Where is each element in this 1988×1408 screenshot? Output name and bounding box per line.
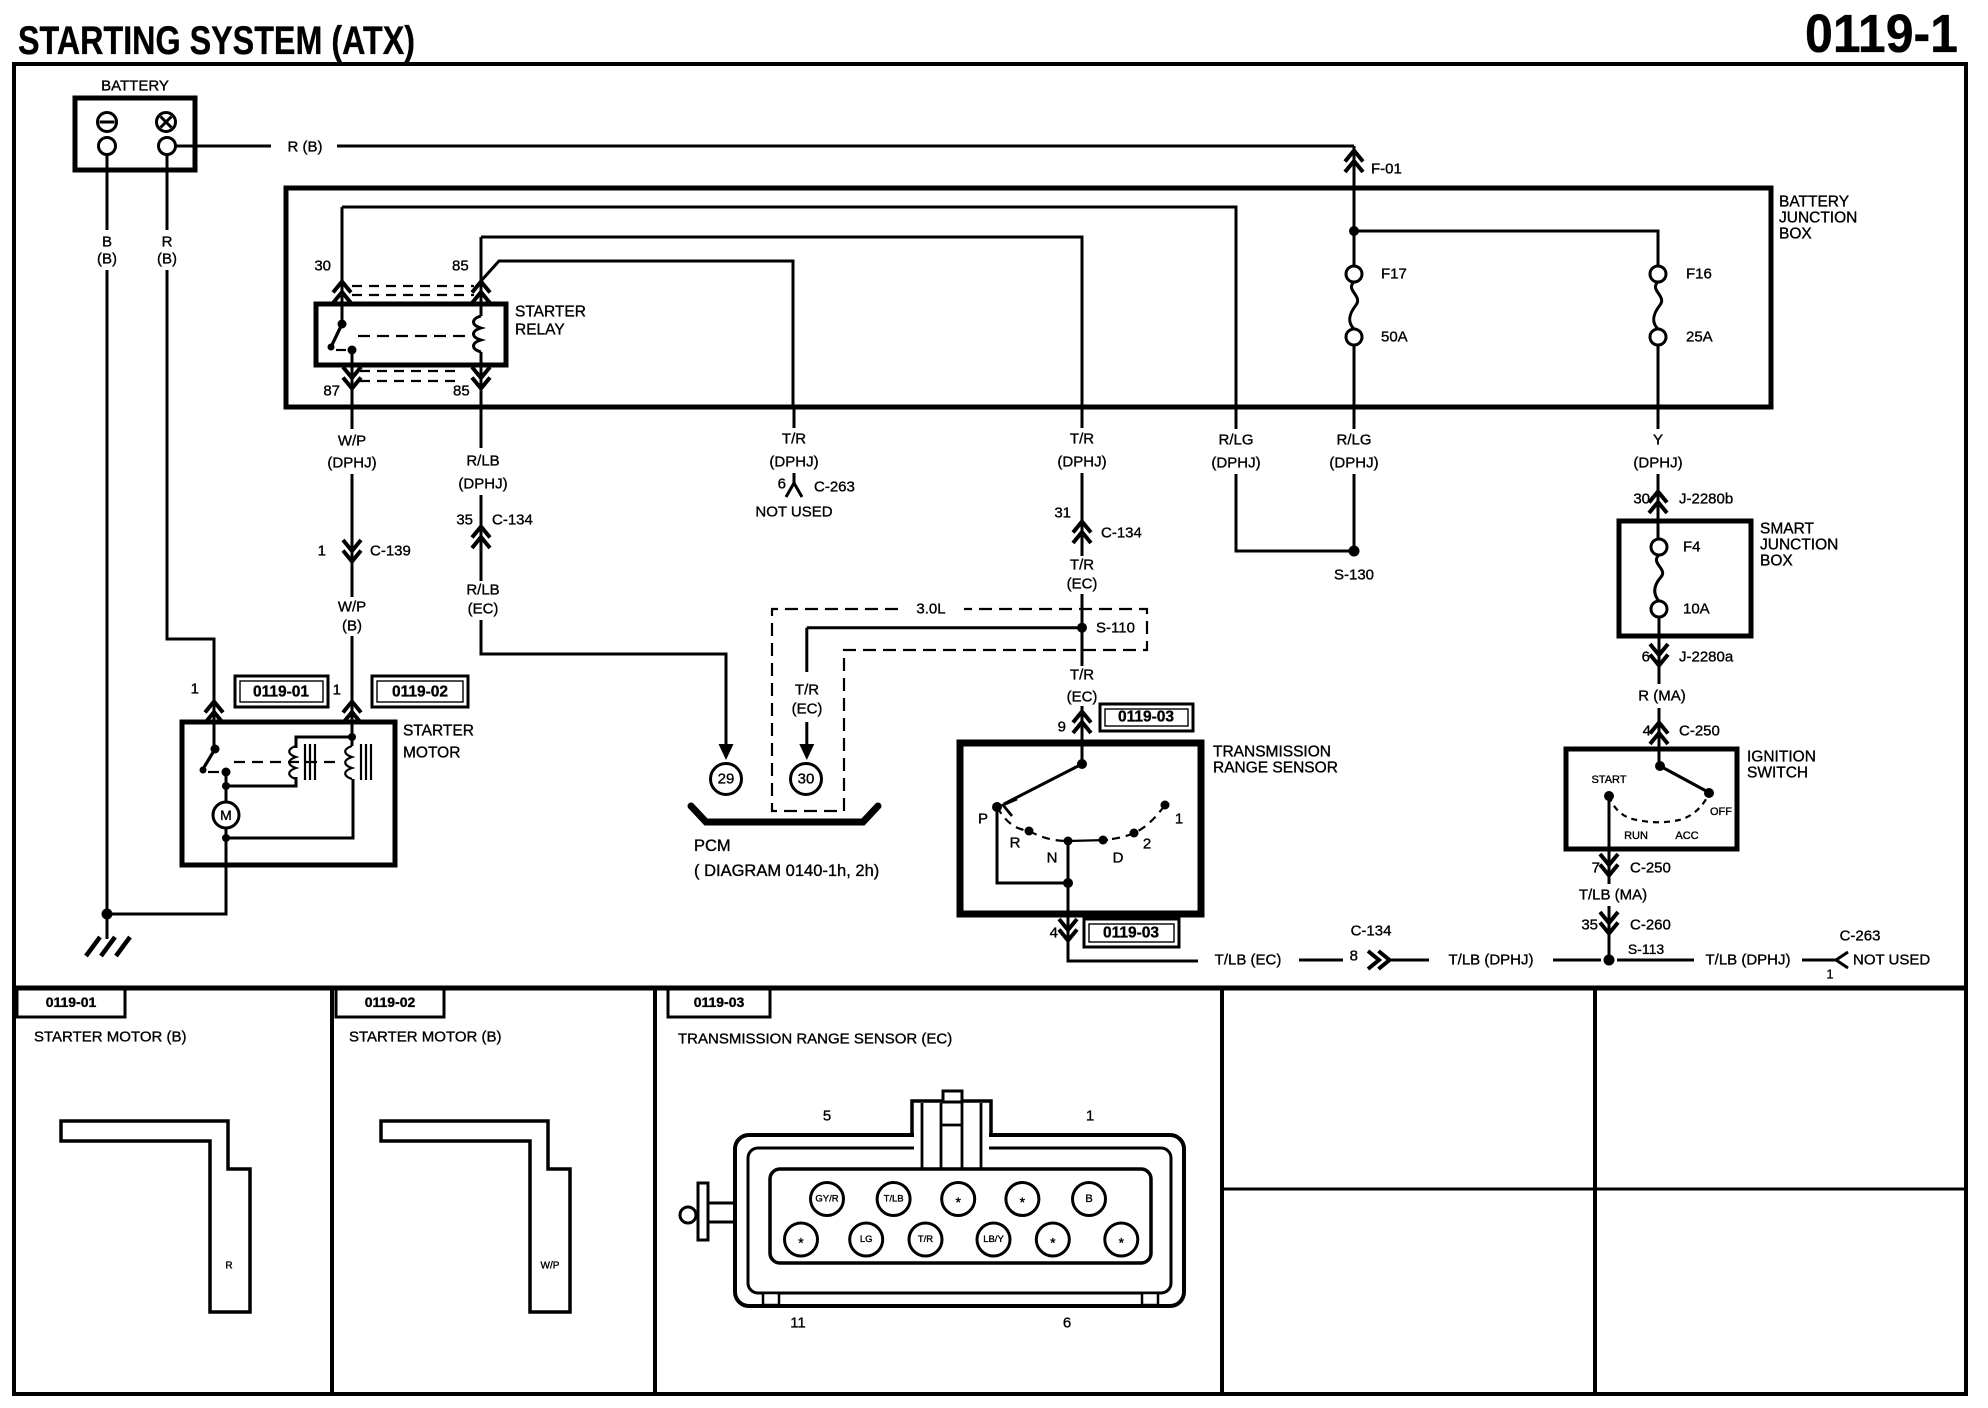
svg-text:30: 30 <box>798 771 815 788</box>
svg-text:6: 6 <box>1063 1315 1071 1332</box>
svg-text:F17: F17 <box>1381 266 1407 283</box>
svg-text:1: 1 <box>1175 811 1183 828</box>
svg-text:1: 1 <box>333 682 341 699</box>
svg-text:*: * <box>1020 1194 1026 1210</box>
svg-text:S-110: S-110 <box>1096 620 1135 637</box>
svg-text:T/R: T/R <box>918 1234 933 1245</box>
svg-text:R/LB: R/LB <box>466 453 499 470</box>
svg-text:(B): (B) <box>157 251 177 268</box>
svg-text:R: R <box>1010 835 1021 852</box>
svg-text:(B): (B) <box>97 251 117 268</box>
svg-text:0119-1: 0119-1 <box>1805 4 1958 64</box>
svg-text:T/LB (DPHJ): T/LB (DPHJ) <box>1705 952 1790 969</box>
svg-text:STARTER: STARTER <box>515 304 586 321</box>
svg-text:9: 9 <box>1058 719 1066 736</box>
svg-text:(DPHJ): (DPHJ) <box>1057 454 1106 471</box>
svg-text:(EC): (EC) <box>468 601 499 618</box>
svg-text:START: START <box>1591 774 1626 786</box>
svg-text:8: 8 <box>1350 948 1358 965</box>
svg-text:6: 6 <box>778 476 786 493</box>
svg-text:OFF: OFF <box>1710 806 1732 818</box>
svg-text:W/P: W/P <box>541 1261 560 1272</box>
svg-text:S-130: S-130 <box>1334 567 1374 584</box>
svg-text:(DPHJ): (DPHJ) <box>458 476 507 493</box>
svg-text:C-260: C-260 <box>1630 917 1671 934</box>
svg-text:0119-03: 0119-03 <box>1103 925 1159 942</box>
svg-text:F4: F4 <box>1683 539 1701 556</box>
svg-text:B: B <box>102 234 112 251</box>
svg-text:RANGE SENSOR: RANGE SENSOR <box>1213 760 1338 777</box>
svg-text:1: 1 <box>1826 967 1833 982</box>
svg-text:PCM: PCM <box>694 837 731 855</box>
svg-text:85: 85 <box>453 383 470 400</box>
svg-text:35: 35 <box>456 512 473 529</box>
svg-text:R/LG: R/LG <box>1218 432 1253 449</box>
svg-text:30: 30 <box>314 258 331 275</box>
svg-text:D: D <box>1113 850 1124 867</box>
svg-text:35: 35 <box>1581 917 1598 934</box>
svg-text:RELAY: RELAY <box>515 322 565 339</box>
svg-text:(DPHJ): (DPHJ) <box>1633 455 1682 472</box>
svg-text:R/LG: R/LG <box>1336 432 1371 449</box>
svg-text:(EC): (EC) <box>1067 576 1098 593</box>
svg-text:85: 85 <box>452 258 469 275</box>
svg-text:B: B <box>1085 1193 1092 1205</box>
svg-text:T/LB (MA): T/LB (MA) <box>1579 887 1647 904</box>
svg-text:(EC): (EC) <box>792 701 823 718</box>
svg-text:STARTER MOTOR (B): STARTER MOTOR (B) <box>34 1029 187 1046</box>
svg-text:3.0L: 3.0L <box>916 601 945 618</box>
svg-text:*: * <box>1050 1235 1056 1251</box>
svg-text:STARTER: STARTER <box>403 723 474 740</box>
svg-text:T/R: T/R <box>1070 431 1094 448</box>
svg-text:JUNCTION: JUNCTION <box>1779 210 1857 227</box>
svg-text:31: 31 <box>1054 505 1071 522</box>
svg-text:S-113: S-113 <box>1628 941 1665 957</box>
svg-text:T/R: T/R <box>1070 557 1094 574</box>
svg-text:(DPHJ): (DPHJ) <box>1329 455 1378 472</box>
svg-text:GY/R: GY/R <box>815 1194 838 1205</box>
svg-text:C-134: C-134 <box>1101 525 1142 542</box>
svg-text:2: 2 <box>1143 836 1151 853</box>
svg-text:BOX: BOX <box>1760 553 1793 570</box>
svg-text:P: P <box>978 811 988 828</box>
svg-text:RUN: RUN <box>1624 830 1648 842</box>
svg-text:R/LB: R/LB <box>466 582 499 599</box>
svg-text:(DPHJ): (DPHJ) <box>327 455 376 472</box>
svg-text:(DPHJ): (DPHJ) <box>1211 455 1260 472</box>
svg-text:F16: F16 <box>1686 266 1712 283</box>
svg-text:C-134: C-134 <box>1351 923 1392 940</box>
svg-text:ACC: ACC <box>1675 830 1698 842</box>
svg-text:1: 1 <box>1086 1108 1094 1125</box>
svg-text:N: N <box>1047 850 1058 867</box>
svg-text:R: R <box>162 234 173 251</box>
svg-text:0119-03: 0119-03 <box>1118 709 1174 726</box>
svg-text:STARTING SYSTEM (ATX): STARTING SYSTEM (ATX) <box>18 19 415 63</box>
svg-text:11: 11 <box>790 1315 806 1332</box>
svg-text:5: 5 <box>823 1108 831 1125</box>
svg-text:F-01: F-01 <box>1371 161 1402 178</box>
svg-text:J-2280a: J-2280a <box>1679 649 1734 666</box>
svg-text:R (B): R (B) <box>288 139 323 156</box>
svg-text:IGNITION: IGNITION <box>1747 749 1816 766</box>
svg-text:R: R <box>225 1261 232 1272</box>
svg-text:R (MA): R (MA) <box>1638 688 1686 705</box>
svg-text:C-250: C-250 <box>1679 723 1720 740</box>
svg-text:SMART: SMART <box>1760 521 1815 538</box>
svg-text:T/LB: T/LB <box>884 1194 904 1205</box>
svg-text:JUNCTION: JUNCTION <box>1760 537 1838 554</box>
svg-text:0119-01: 0119-01 <box>46 994 97 1010</box>
svg-text:10A: 10A <box>1683 601 1710 618</box>
svg-text:BATTERY: BATTERY <box>101 78 169 95</box>
svg-text:T/R: T/R <box>795 682 819 699</box>
svg-text:LG: LG <box>860 1234 873 1245</box>
svg-text:Y: Y <box>1653 432 1663 449</box>
svg-text:STARTER MOTOR (B): STARTER MOTOR (B) <box>349 1029 502 1046</box>
svg-text:7: 7 <box>1592 860 1600 877</box>
svg-text:25A: 25A <box>1686 329 1713 346</box>
svg-text:BOX: BOX <box>1779 226 1812 243</box>
svg-text:NOT USED: NOT USED <box>1853 952 1930 969</box>
svg-text:(EC): (EC) <box>1067 689 1098 706</box>
svg-text:C-263: C-263 <box>814 479 855 496</box>
svg-text:1: 1 <box>191 681 199 698</box>
svg-text:4: 4 <box>1050 925 1058 942</box>
svg-text:C-263: C-263 <box>1840 928 1881 945</box>
svg-text:W/P: W/P <box>338 433 366 450</box>
svg-text:T/LB (DPHJ): T/LB (DPHJ) <box>1448 952 1533 969</box>
svg-text:BATTERY: BATTERY <box>1779 194 1849 211</box>
svg-text:C-139: C-139 <box>370 543 411 560</box>
svg-text:0119-02: 0119-02 <box>365 994 416 1010</box>
svg-text:29: 29 <box>718 771 735 788</box>
svg-text:LB/Y: LB/Y <box>983 1234 1004 1245</box>
svg-text:*: * <box>798 1235 804 1251</box>
svg-text:M: M <box>220 807 232 823</box>
svg-text:*: * <box>955 1194 961 1210</box>
svg-text:30: 30 <box>1633 491 1650 508</box>
svg-text:SWITCH: SWITCH <box>1747 765 1808 782</box>
svg-text:T/LB (EC): T/LB (EC) <box>1215 952 1282 969</box>
svg-text:50A: 50A <box>1381 329 1408 346</box>
svg-text:( DIAGRAM 0140-1h, 2h): ( DIAGRAM 0140-1h, 2h) <box>694 862 879 880</box>
svg-text:87: 87 <box>323 383 340 400</box>
svg-text:6: 6 <box>1642 649 1650 666</box>
svg-text:C-250: C-250 <box>1630 860 1671 877</box>
svg-text:(B): (B) <box>342 618 362 635</box>
svg-text:J-2280b: J-2280b <box>1679 491 1733 508</box>
svg-text:TRANSMISSION: TRANSMISSION <box>1213 744 1331 761</box>
svg-text:1: 1 <box>318 543 326 560</box>
svg-text:TRANSMISSION RANGE SENSOR (EC): TRANSMISSION RANGE SENSOR (EC) <box>678 1031 952 1048</box>
svg-text:MOTOR: MOTOR <box>403 745 460 762</box>
svg-text:*: * <box>1119 1235 1125 1251</box>
svg-text:(DPHJ): (DPHJ) <box>769 454 818 471</box>
svg-text:NOT USED: NOT USED <box>755 504 832 521</box>
svg-text:W/P: W/P <box>338 599 366 616</box>
svg-text:T/R: T/R <box>782 431 806 448</box>
svg-text:0119-01: 0119-01 <box>253 684 309 701</box>
svg-text:0119-03: 0119-03 <box>694 994 745 1010</box>
svg-text:0119-02: 0119-02 <box>392 684 448 701</box>
svg-text:4: 4 <box>1643 723 1651 740</box>
svg-text:C-134: C-134 <box>492 512 533 529</box>
svg-text:T/R: T/R <box>1070 667 1094 684</box>
